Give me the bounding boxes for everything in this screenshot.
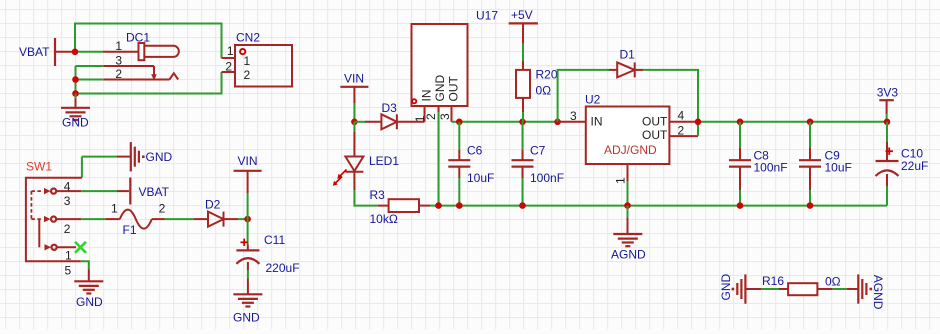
- IC U17 pin names: [420, 75, 461, 102]
- label U17 pin 1: [413, 115, 427, 122]
- svg-text:VIN: VIN: [238, 154, 258, 168]
- svg-text:1: 1: [227, 44, 234, 58]
- label C8: [754, 149, 770, 163]
- label SW1 pin 2: [64, 222, 71, 236]
- wire +5V to R20: [522, 43, 524, 70]
- junction C8 bottom: [737, 202, 744, 209]
- svg-text:0Ω: 0Ω: [825, 275, 841, 289]
- svg-text:VBAT: VBAT: [139, 185, 170, 199]
- label +5V: [511, 8, 533, 22]
- label C7 value: [530, 171, 564, 185]
- svg-text:3: 3: [115, 54, 122, 68]
- resistor R20 body: [516, 70, 530, 98]
- svg-text:OUT: OUT: [446, 76, 460, 102]
- label R16 value: [825, 275, 841, 289]
- wire SW1 pin5 to GND: [81, 261, 89, 281]
- junction DC1 pin2: [72, 76, 79, 83]
- junction OUT node: [695, 119, 702, 126]
- svg-text:R16: R16: [762, 274, 784, 288]
- svg-text:2: 2: [424, 113, 438, 120]
- wire IN net: [459, 121, 557, 123]
- wire VBAT top rail: [75, 24, 222, 59]
- diode D1: [617, 62, 635, 77]
- svg-text:R20: R20: [536, 68, 558, 82]
- label VIN (left): [238, 154, 258, 168]
- label C10 value: [901, 159, 928, 173]
- wire AGND stem: [627, 206, 629, 234]
- junction VIN/D3/LED1: [351, 119, 358, 126]
- resistor R3 body: [389, 199, 419, 212]
- svg-text:AGND: AGND: [611, 248, 646, 262]
- svg-text:1: 1: [115, 39, 122, 53]
- resistor R16 lead 2: [817, 288, 858, 290]
- svg-text:OUT: OUT: [642, 115, 668, 129]
- svg-text:IN: IN: [591, 115, 603, 129]
- label R16: [762, 274, 784, 288]
- switch SW1 pole B arrow: [44, 216, 51, 222]
- connector DC1 pin 2: [104, 73, 178, 79]
- capacitor C11 bottom lead: [247, 262, 249, 270]
- fuse F1 body: [120, 210, 152, 229]
- svg-text:4: 4: [64, 179, 71, 193]
- regulator U2 pin 1 lead: [627, 164, 629, 206]
- capacitor C10 bottom lead: [886, 174, 888, 206]
- wire VIN stem: [247, 193, 249, 219]
- diode D1 cathode lead: [635, 69, 643, 71]
- label CN2: [236, 31, 260, 45]
- fuse F1 lead 2: [152, 218, 165, 220]
- led LED1: [345, 157, 363, 172]
- junction 3V3 node: [884, 119, 891, 126]
- wire D1 cathode: [643, 70, 698, 122]
- capacitor C10 plates: [876, 161, 899, 176]
- label SW1 pin 3: [64, 194, 71, 208]
- resistor R20 lead: [522, 98, 524, 122]
- capacitor C9: [799, 122, 821, 206]
- switch SW1 pole A dashes: [31, 191, 43, 219]
- label D1: [620, 48, 636, 62]
- svg-text:C6: C6: [467, 144, 483, 158]
- wire VIN node to C11: [247, 219, 249, 244]
- svg-text:VBAT: VBAT: [19, 45, 50, 59]
- label C6: [467, 144, 483, 158]
- diode D1 anode lead: [609, 69, 617, 71]
- ground GND (DC1): [61, 108, 90, 120]
- switch SW1 frame: [26, 178, 82, 262]
- label U17 pin 3: [438, 113, 452, 120]
- label U2 pin 1: [614, 177, 628, 184]
- no-connect X: [75, 242, 86, 253]
- connector DC1 pin 1: [103, 51, 139, 53]
- switch SW1 pole A contact: [51, 189, 56, 194]
- wire R3 to GND rail: [430, 205, 439, 207]
- svg-text:GND: GND: [62, 116, 89, 130]
- junction rail R3/U17: [435, 202, 442, 209]
- svg-text:10uF: 10uF: [467, 171, 494, 185]
- label GND (R16): [719, 274, 733, 301]
- fuse F1 lead 1: [106, 218, 120, 220]
- label GND (C11): [233, 311, 260, 325]
- label C7: [530, 144, 546, 158]
- label SW1 pin 5: [65, 263, 72, 277]
- wire VBAT to DC1 pin 1: [75, 51, 103, 53]
- label D3: [382, 101, 398, 115]
- power flag VIN (left): [234, 171, 262, 193]
- svg-text:1: 1: [614, 177, 628, 184]
- label DC1 pin 2: [115, 67, 122, 81]
- label C8 value: [754, 161, 788, 175]
- pin-1 marker U17: [412, 99, 416, 103]
- connector DC1 pin 3: [104, 66, 157, 81]
- power flag VBAT: [19, 38, 72, 66]
- wire SW1 to GND flag: [82, 157, 130, 178]
- svg-text:CN2: CN2: [236, 31, 260, 45]
- svg-text:R3: R3: [370, 188, 386, 202]
- label SW1 pin 4: [64, 179, 71, 193]
- label U2: [585, 92, 601, 106]
- label C6 value: [467, 171, 494, 185]
- ground AGND (U2): [613, 234, 642, 246]
- capacitor C6: [448, 122, 470, 206]
- wire F1 to D2: [165, 218, 195, 220]
- svg-text:IN: IN: [420, 90, 434, 102]
- label U2 ADJ/GND: [604, 143, 657, 157]
- svg-text:3V3: 3V3: [877, 86, 899, 100]
- label C9 value: [825, 161, 852, 175]
- label C10: [901, 147, 923, 161]
- svg-text:3: 3: [64, 194, 71, 208]
- regulator U2 pin 4 lead: [669, 121, 698, 123]
- label CN2 pin numbers outside: [225, 44, 234, 74]
- switch SW1 pole C contact: [52, 245, 57, 250]
- wire C11 to GND: [247, 270, 249, 294]
- svg-text:GND: GND: [433, 75, 447, 102]
- label R3 value: [370, 212, 398, 226]
- wire D2 to VIN node: [238, 218, 248, 220]
- label CN2 pin numbers inside: [244, 54, 251, 82]
- svg-text:C11: C11: [264, 233, 285, 247]
- label VBAT (SW1): [139, 185, 170, 199]
- label F1: [123, 223, 137, 237]
- label U2 pin 3: [570, 109, 577, 123]
- label F1 pin 2: [159, 201, 166, 215]
- IC U17 pin 1 stub: [424, 106, 426, 122]
- label R20: [536, 68, 558, 82]
- svg-text:2: 2: [244, 68, 251, 82]
- resistor R3 lead 2: [419, 205, 430, 207]
- junction C9 bottom: [807, 202, 814, 209]
- regulator U2 pin 3 lead: [558, 121, 586, 123]
- diode D2 cathode lead: [224, 218, 239, 220]
- label DC1 pin 1: [115, 39, 122, 53]
- label U2 IN: [591, 115, 603, 129]
- label R3: [370, 188, 386, 202]
- led LED1 cathode lead: [353, 172, 355, 190]
- svg-text:GND: GND: [146, 150, 173, 164]
- junction GND rail: [72, 90, 79, 97]
- svg-text:DC1: DC1: [126, 31, 150, 45]
- svg-text:AGND: AGND: [871, 275, 885, 310]
- label U2 pin 4: [678, 109, 685, 123]
- svg-text:4: 4: [678, 109, 685, 123]
- label DC1: [126, 31, 150, 45]
- wire GND column: [75, 66, 77, 94]
- label AGND (R16): [871, 275, 885, 310]
- switch SW1 pole A arrow: [44, 188, 51, 194]
- capacitor C10 plus: [886, 148, 893, 155]
- resistor R16 lead 1: [745, 288, 788, 290]
- diode D3 anode lead: [365, 121, 381, 123]
- label U17: [476, 9, 498, 23]
- label GND (SW1): [76, 295, 103, 309]
- wire 3V3 output rail: [698, 121, 887, 123]
- label SW1 pin 1: [65, 249, 72, 263]
- power flag 3V3: [879, 100, 894, 114]
- connector CN2 pin 2 stub: [222, 71, 236, 73]
- svg-text:2: 2: [159, 201, 166, 215]
- junction C7 bottom: [519, 202, 526, 209]
- svg-text:10kΩ: 10kΩ: [370, 212, 398, 226]
- IC U17 pin 2 stub: [438, 106, 440, 206]
- capacitor C11 top lead: [247, 245, 249, 251]
- label LED1: [369, 154, 399, 168]
- svg-text:GND: GND: [719, 274, 733, 301]
- switch SW1 pin 4 lead: [56, 190, 81, 192]
- diode D3: [381, 114, 397, 129]
- svg-text:D2: D2: [205, 198, 221, 212]
- svg-text:LED1: LED1: [369, 154, 399, 168]
- label U2 OUT b: [642, 128, 668, 142]
- label R20 value: [536, 84, 552, 98]
- svg-text:F1: F1: [123, 223, 137, 237]
- ground GND (SW1): [74, 281, 103, 293]
- wire node to D3: [354, 121, 365, 123]
- label GND (DC1): [62, 116, 89, 130]
- label D2: [205, 198, 221, 212]
- junction C6 top: [456, 119, 463, 126]
- resistor R3 lead 1: [378, 205, 389, 207]
- svg-text:100nF: 100nF: [530, 171, 564, 185]
- label C9: [825, 149, 841, 163]
- svg-text:1: 1: [244, 54, 251, 68]
- connector CN2 body: [235, 45, 292, 87]
- regulator U2 body: [586, 107, 670, 165]
- junction U2 pin1 / rail: [624, 202, 631, 209]
- svg-text:OUT: OUT: [642, 128, 668, 142]
- label C11 value: [266, 261, 300, 275]
- switch SW1 pole C arrow: [45, 244, 52, 250]
- regulator U2 pin 2 lead: [669, 122, 698, 136]
- wire node to LED1: [353, 122, 355, 132]
- diode D3 cathode lead: [397, 121, 425, 123]
- svg-text:2: 2: [678, 123, 685, 137]
- svg-text:2: 2: [115, 67, 122, 81]
- label VIN (middle): [344, 72, 364, 86]
- ground GND (C11): [233, 294, 262, 306]
- svg-text:GND: GND: [76, 295, 103, 309]
- diode D2 anode lead: [194, 218, 208, 220]
- svg-text:D3: D3: [382, 101, 398, 115]
- diode D2: [208, 212, 224, 227]
- wire VIN to node: [353, 103, 355, 122]
- power flag +5V: [509, 23, 538, 43]
- svg-text:0Ω: 0Ω: [536, 84, 552, 98]
- junction VBAT: [72, 49, 79, 56]
- power flag GND (battery style): [131, 142, 145, 171]
- label GND flag: [146, 150, 173, 164]
- wire SW1 pin4 to VBAT: [81, 190, 129, 192]
- led LED1 arrows: [333, 170, 347, 186]
- svg-text:2: 2: [225, 60, 232, 74]
- junction C8 top: [737, 119, 744, 126]
- wire DC1 pin 2 net: [76, 79, 105, 81]
- svg-text:ADJ/GND: ADJ/GND: [604, 143, 657, 157]
- svg-text:U17: U17: [476, 9, 498, 23]
- switch SW1 pin 2 lead: [56, 218, 81, 220]
- junction VIN node: [244, 216, 251, 223]
- junction C7 top: [519, 119, 526, 126]
- connector DC1 barrel: [145, 46, 179, 57]
- wire GND rail to CN2 pin 2: [76, 72, 222, 94]
- svg-text:1: 1: [111, 201, 118, 215]
- label U17 pin 2: [424, 113, 438, 120]
- svg-text:22uF: 22uF: [901, 159, 928, 173]
- wire GND stem: [75, 94, 77, 108]
- svg-text:+5V: +5V: [511, 8, 533, 22]
- IC U17 pin 3 stub: [452, 106, 460, 122]
- label AGND (U2): [611, 248, 646, 262]
- label F1 pin 1: [111, 201, 118, 215]
- svg-text:2: 2: [64, 222, 71, 236]
- junction C9 top: [807, 119, 814, 126]
- wire D1 anode: [558, 70, 609, 122]
- svg-text:C7: C7: [530, 144, 546, 158]
- svg-text:U2: U2: [585, 92, 601, 106]
- capacitor C11 plus: [241, 239, 248, 246]
- svg-text:100nF: 100nF: [754, 161, 788, 175]
- svg-text:5: 5: [65, 263, 72, 277]
- power flag GND (R16): [732, 274, 746, 303]
- wire LED1 to R3: [354, 190, 378, 206]
- switch SW1 pin 1 lead: [57, 246, 76, 248]
- svg-text:1: 1: [65, 249, 72, 263]
- wire DC1 pin 3 net: [76, 65, 105, 67]
- label SW1: [26, 160, 52, 174]
- wire analog ground rail: [439, 205, 888, 207]
- junction C6 bottom: [456, 202, 463, 209]
- capacitor C8: [729, 122, 751, 206]
- svg-text:10uF: 10uF: [825, 161, 852, 175]
- power flag AGND (R16): [858, 274, 872, 303]
- label U2 OUT a: [642, 115, 668, 129]
- capacitor C11 plates: [236, 250, 259, 263]
- label DC1 pin 3: [115, 54, 122, 68]
- power flag VBAT (SW1): [129, 178, 131, 205]
- label C11: [264, 233, 285, 247]
- svg-text:VIN: VIN: [344, 72, 364, 86]
- svg-text:220uF: 220uF: [266, 261, 300, 275]
- resistor R16 body: [788, 283, 817, 295]
- switch SW1 pole link: [38, 219, 40, 247]
- label 3V3: [877, 86, 899, 100]
- svg-text:3: 3: [570, 109, 577, 123]
- connector DC1 plug: [139, 43, 145, 60]
- IC U17 body: [412, 24, 468, 106]
- svg-text:D1: D1: [620, 48, 636, 62]
- junction D1 anode: [554, 119, 561, 126]
- connector CN2 pin 1 stub: [222, 57, 236, 59]
- svg-text:3: 3: [438, 113, 452, 120]
- pin-1 marker CN2: [240, 49, 245, 54]
- led LED1 anode lead: [353, 132, 355, 157]
- switch SW1 pole B contact: [51, 217, 56, 222]
- wire 3V3 stem: [886, 114, 888, 122]
- capacitor C10 top lead: [886, 122, 888, 161]
- power flag VIN (middle): [340, 87, 368, 103]
- svg-text:GND: GND: [233, 311, 260, 325]
- svg-text:SW1: SW1: [26, 160, 52, 174]
- capacitor C7: [512, 122, 534, 206]
- label U2 pin 2: [678, 123, 685, 137]
- wire SW1 pin2 to F1: [81, 218, 106, 220]
